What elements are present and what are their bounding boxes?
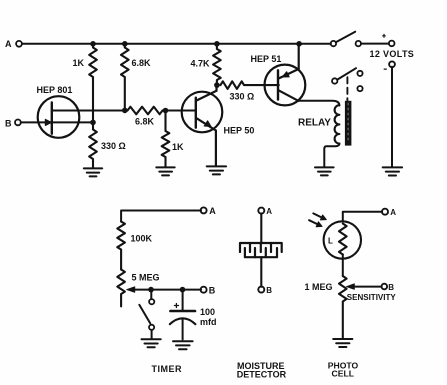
wiper arrow + wire to timer B [133,289,201,291]
light arrow 1 [313,213,322,217]
node A (photo) [382,209,388,215]
node A (timer) [201,207,207,213]
node A (main input terminal) [16,41,22,47]
wire: B to gate of Q1 [21,121,52,123]
resistor R2 6.8K [121,44,129,110]
svg-text:1 MEG: 1 MEG [305,282,333,292]
wire: Q3 collector to relay coil [298,101,339,106]
svg-text:HEP 50: HEP 50 [224,126,255,136]
wire: sensor to B [260,257,262,287]
ground (under Q2 emitter) [207,166,226,174]
relay actuator dashed link [346,77,348,101]
junction dot (R4/R5/collector) [214,82,220,88]
plus mark [383,34,386,37]
svg-text:330 Ω: 330 Ω [101,141,126,151]
junction dot (1K/330/source) [90,120,96,126]
light arrow 2 [309,220,318,224]
transistor Q2 HEP 50 [182,85,223,165]
ground (timer switch) [142,339,161,347]
wiper arrow + wire to photo B [352,286,382,288]
svg-text:B: B [388,283,394,292]
svg-text:B: B [209,285,216,295]
ground (relay) [315,167,334,175]
relay contact NO [357,71,362,76]
wire: top supply rail from A to switch [22,43,331,45]
transistor Q1 HEP 801 [38,96,80,138]
svg-text:mfd: mfd [200,317,217,327]
resistor 100K [117,222,125,270]
junction dot (top rail / R1) [90,41,96,47]
svg-text:A: A [5,39,12,49]
relay coil K1 [335,105,340,143]
resistor R1 1K [89,44,97,122]
svg-text:1K: 1K [172,142,184,152]
svg-text:RELAY: RELAY [298,118,331,129]
node B (main input terminal) [15,120,21,126]
svg-text:DETECTOR: DETECTOR [237,370,287,380]
junction dot (top rail / Q3 emitter) [296,41,302,47]
junction dot (6.8K bottom/drain) [122,108,128,114]
svg-text:6.8K: 6.8K [135,117,155,127]
minus mark [384,68,386,70]
wire: A to sensor [260,214,262,243]
battery + terminal [389,41,395,47]
svg-text:SENSITIVITY: SENSITIVITY [347,293,397,302]
battery - terminal [389,61,395,67]
svg-text:HEP 801: HEP 801 [37,85,73,95]
node B (moisture) [258,287,264,293]
node A (moisture) [258,208,264,214]
relay contact NC [357,86,362,91]
svg-text:100: 100 [200,307,215,317]
svg-text:6.8K: 6.8K [132,58,152,68]
svg-text:A: A [266,207,272,216]
node B (timer) [201,287,207,293]
resistor R7 6.8K horizontal [128,107,163,115]
svg-text:HEP 51: HEP 51 [251,54,282,64]
ground (under R3) [84,168,102,176]
svg-text:1K: 1K [73,58,85,68]
resistor R3 330 ohm [89,122,97,167]
timer switch stub + contact [150,292,152,299]
potentiometer 1 MEG [339,276,347,338]
ground (capacitor) [173,341,193,349]
svg-text:A: A [209,206,216,216]
transistor Q3 HEP 51 [265,44,306,106]
svg-text:12 VOLTS: 12 VOLTS [370,49,415,59]
node B (photo) [382,284,388,290]
relay core [345,101,352,146]
svg-text:B: B [5,119,12,129]
svg-text:CELL: CELL [332,369,354,379]
svg-text:A: A [390,208,396,217]
photocell PC1 [324,221,361,258]
moisture sensor grid [240,243,282,257]
wire: coil bottom to ground [324,144,339,167]
relay contact lever [337,68,356,79]
wire: Q1 drain line to HEP50 base (y=110.5) [52,110,196,112]
junction dot (base line / R6) [163,108,169,114]
relay contact common [332,78,337,83]
timer switch lever + pivot [139,305,150,323]
svg-text:100K: 100K [131,234,153,244]
ground (under R6) [156,167,174,175]
capacitor C1 100 mfd [182,290,184,310]
resistor R4 4.7K [213,44,221,85]
svg-text:TIMER: TIMER [152,364,183,374]
ground (photo cell) [333,339,352,347]
wire: A to cell [343,212,382,222]
resistor R5 330 ohm horizontal [221,81,279,89]
svg-text:330 Ω: 330 Ω [230,92,255,102]
resistor R6 1K [162,111,170,167]
junction dot (timer wiper/switch) [148,287,154,293]
svg-text:L: L [328,237,333,246]
svg-text:5 MEG: 5 MEG [132,273,160,283]
svg-text:4.7K: 4.7K [191,59,211,69]
plus mark (capacitor) [174,304,178,308]
junction dot (timer wiper/cap) [180,287,186,293]
wire: switch to battery + [361,43,389,45]
wire: battery - down to ground [391,67,393,167]
wire: cell to pot [342,255,344,277]
junction dot (top rail / R2) [122,41,128,47]
svg-text:B: B [266,286,272,295]
wire: timer A to 100K [121,211,201,222]
junction dot (top rail / R4) [214,41,220,47]
ground (battery) [383,167,402,175]
potentiometer 5 MEG [117,270,125,307]
wire: Q1 source line to junction [52,121,93,123]
switch S1 (main power) [331,41,336,46]
